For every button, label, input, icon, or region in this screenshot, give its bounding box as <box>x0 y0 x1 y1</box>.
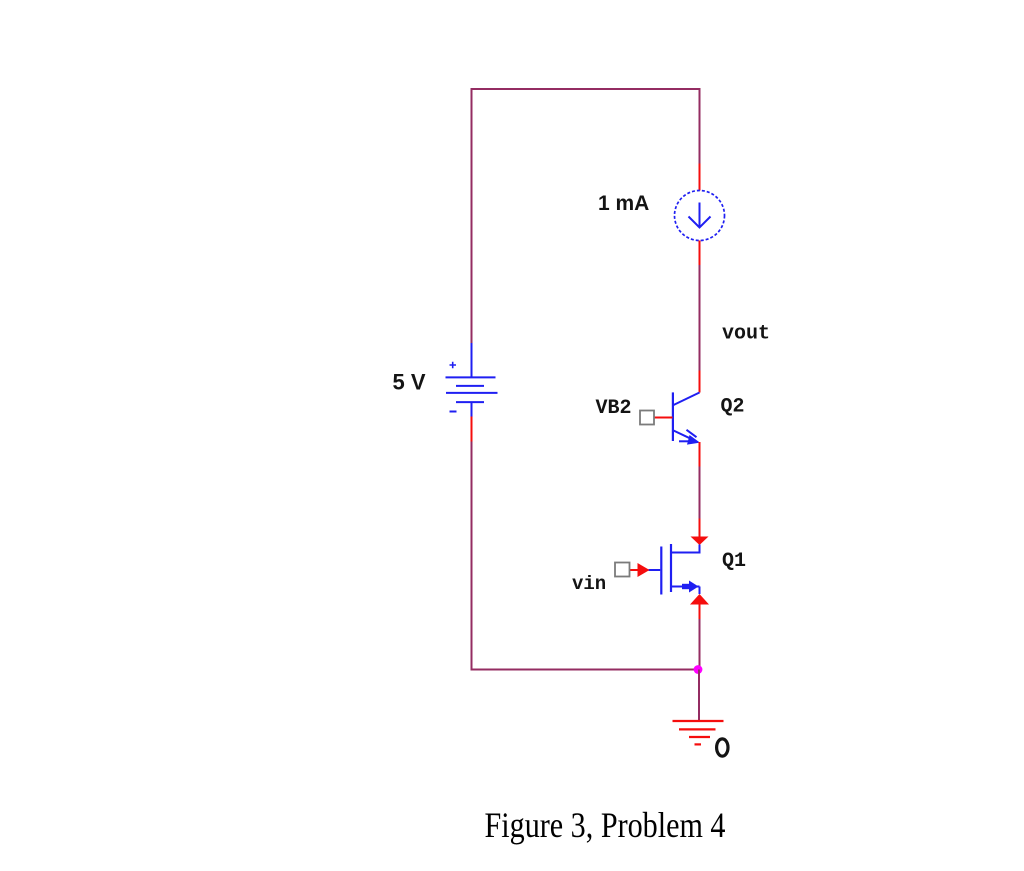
wire right rail seg1 <box>699 88 701 164</box>
wire bottom horizontal <box>471 669 700 671</box>
svg-text:Q1: Q1 <box>722 550 746 573</box>
mosfet Q1 source arrowhead <box>689 581 699 593</box>
current source arrow head <box>689 217 711 228</box>
label 0 <box>717 739 728 756</box>
ground symbol line2 <box>679 728 716 730</box>
battery V1 plate1 <box>446 376 496 378</box>
wire right rail seg3 <box>699 467 701 519</box>
battery minus mark <box>450 411 457 413</box>
transistor Q2 emitter arrow echo chevron <box>687 430 697 437</box>
transistor Q2 base bar <box>672 392 674 441</box>
mosfet Q1 source lead <box>671 587 700 595</box>
mosfet Q1 gate bar <box>660 547 662 595</box>
battery V1 plate3 <box>446 392 498 394</box>
battery V1 plate4 <box>456 401 484 403</box>
wire top horizontal <box>471 88 701 90</box>
wire right rail seg4 <box>699 619 701 670</box>
transistor Q2 emitter stroke <box>674 431 692 439</box>
wire red below source marker <box>699 605 701 620</box>
port square vin <box>615 563 630 577</box>
marker arrow down at Q1 drain <box>691 537 709 546</box>
svg-text:Figure 3, Problem 4: Figure 3, Problem 4 <box>485 805 726 845</box>
svg-text:vin: vin <box>572 573 606 595</box>
wire red above drain marker <box>699 519 701 537</box>
svg-text:VB2: VB2 <box>596 397 632 420</box>
transistor Q2 collector stroke <box>674 393 700 406</box>
ground symbol line1 <box>673 720 724 722</box>
transistor Q2 emitter arrow underline <box>679 440 692 442</box>
mosfet Q1 gate lead <box>649 569 661 571</box>
ground symbol line4 <box>695 743 702 745</box>
mosfet Q1 channel bar <box>670 544 672 592</box>
port square VB2 <box>640 411 654 425</box>
wire left rail lower <box>471 442 473 671</box>
ground symbol line3 <box>689 736 710 738</box>
svg-text:1 mA: 1 mA <box>598 192 649 215</box>
current source arrow shaft <box>699 203 701 227</box>
wire right rail seg2 <box>699 265 701 371</box>
wire red gate lead <box>630 569 639 571</box>
marker arrow right at Q1 gate <box>638 563 650 577</box>
junction node dot <box>694 665 703 674</box>
wire left rail upper <box>471 88 473 344</box>
svg-text:5 V: 5 V <box>393 370 426 395</box>
wire red battery bottom <box>471 417 473 442</box>
wire red collector pin Q2 <box>699 371 701 393</box>
wire red base lead Q2 <box>654 417 673 419</box>
battery V1 bottom pin <box>471 402 473 416</box>
mosfet Q1 source arrow tail <box>682 584 690 589</box>
marker arrow up at Q1 source <box>690 594 709 605</box>
transistor Q2 emitter arrowhead <box>687 435 700 445</box>
svg-text:vout: vout <box>722 323 770 346</box>
wire red seg below current source <box>699 241 701 266</box>
wire red emitter pin Q2 <box>699 442 701 467</box>
wire ground stem <box>698 670 700 722</box>
wire red seg above current source <box>699 164 701 191</box>
current source I1 circle <box>675 191 725 241</box>
svg-text:Q2: Q2 <box>721 396 745 419</box>
mosfet Q1 drain lead <box>671 545 701 553</box>
battery V1 plate2 <box>456 385 484 387</box>
battery V1 top pin <box>471 343 473 378</box>
battery plus mark <box>450 362 457 368</box>
